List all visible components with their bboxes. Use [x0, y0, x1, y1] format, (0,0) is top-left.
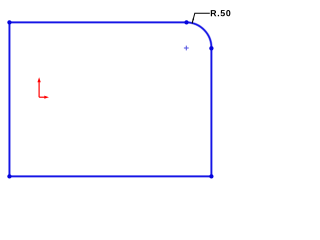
sketch left edge line — [8, 22, 10, 176]
dimension leader line — [192, 13, 210, 23]
sketch point bottom-left corner — [7, 174, 11, 178]
fillet arc top-right R.50 — [187, 22, 212, 48]
sketch bottom edge line — [9, 175, 211, 177]
sketch right edge line — [210, 48, 212, 176]
sketch top edge line — [9, 21, 186, 23]
sketch point bottom-right corner — [209, 174, 213, 178]
sketch point arc start tangent — [184, 20, 188, 24]
sketch point top-left corner — [7, 20, 11, 24]
sketch point arc end tangent — [209, 46, 213, 50]
dimension leader arrowhead — [192, 18, 194, 23]
sketch outline soft glow — [9, 22, 211, 176]
origin symbol vertical axis arrowhead — [37, 77, 40, 82]
dimension text R.50 — [211, 10, 231, 16]
origin symbol vertical axis shaft — [38, 82, 40, 97]
origin symbol horizontal axis shaft — [39, 96, 44, 98]
arc center cross marker — [184, 46, 189, 51]
origin symbol horizontal axis arrowhead — [44, 96, 49, 99]
